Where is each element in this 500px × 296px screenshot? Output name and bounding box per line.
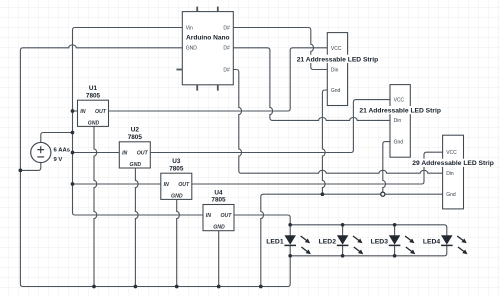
svg-text:Gnd: Gnd: [331, 88, 341, 94]
svg-text:LED1: LED1: [266, 238, 284, 245]
svg-text:GND: GND: [186, 46, 198, 52]
svg-text:U4: U4: [214, 189, 223, 196]
svg-text:LED2: LED2: [319, 238, 337, 245]
svg-text:U3: U3: [172, 158, 181, 165]
svg-text:VCC: VCC: [331, 46, 342, 52]
svg-text:Gnd: Gnd: [446, 192, 456, 198]
svg-text:VCC: VCC: [394, 97, 405, 103]
svg-text:7805: 7805: [211, 197, 226, 204]
svg-text:IN: IN: [206, 213, 211, 219]
svg-text:21 Addressable LED Strip: 21 Addressable LED Strip: [297, 56, 379, 63]
svg-text:Din: Din: [394, 118, 402, 124]
svg-text:29 Addressable LED Strip: 29 Addressable LED Strip: [412, 160, 494, 167]
svg-text:OUT: OUT: [178, 182, 190, 188]
svg-text:Gnd: Gnd: [394, 139, 404, 145]
svg-text:OUT: OUT: [137, 151, 149, 157]
svg-text:LED4: LED4: [423, 238, 441, 245]
svg-text:OUT: OUT: [220, 213, 232, 219]
svg-text:GND: GND: [171, 193, 183, 199]
svg-text:9 V: 9 V: [54, 157, 63, 163]
svg-text:LED3: LED3: [371, 238, 389, 245]
svg-text:GND: GND: [213, 225, 225, 231]
svg-text:Din: Din: [446, 171, 454, 177]
svg-text:VCC: VCC: [446, 150, 457, 156]
svg-text:IN: IN: [80, 109, 85, 115]
svg-text:IN: IN: [122, 151, 127, 157]
svg-text:OUT: OUT: [95, 109, 107, 115]
svg-text:Arduino Nano: Arduino Nano: [186, 35, 230, 42]
svg-text:GND: GND: [130, 162, 142, 168]
svg-text:6 AAs: 6 AAs: [54, 148, 71, 154]
svg-text:Vin: Vin: [186, 25, 193, 31]
svg-text:21 Addressable LED Strip: 21 Addressable LED Strip: [359, 108, 441, 115]
svg-text:D#: D#: [223, 46, 230, 52]
svg-text:D#: D#: [223, 67, 230, 73]
svg-text:U1: U1: [89, 85, 98, 92]
svg-text:U2: U2: [131, 127, 140, 134]
svg-text:7805: 7805: [169, 165, 184, 172]
svg-text:D#: D#: [223, 25, 230, 31]
svg-text:7805: 7805: [128, 134, 143, 141]
svg-text:Din: Din: [331, 67, 339, 73]
svg-text:GND: GND: [88, 120, 100, 126]
svg-text:IN: IN: [164, 182, 169, 188]
svg-text:7805: 7805: [86, 92, 101, 99]
